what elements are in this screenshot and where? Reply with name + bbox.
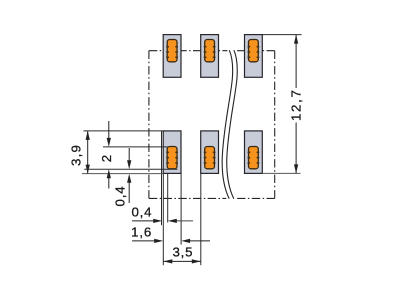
dimension 12,7 line + arrows	[295, 35, 297, 174]
dimension 0,4 horizontal line left + arrow	[132, 220, 155, 222]
top row centerline (dash-dot)	[149, 50, 275, 52]
extension line x=161.5 (left of pad col 1)	[161, 131, 163, 225]
extension line x=181.1 (pad col1 right, serves 1,6)	[180, 174, 182, 245]
dimension 2 extension top	[103, 146, 168, 148]
break line curve 2	[227, 50, 238, 199]
extension line x=163.3 (pad col1 left, serves 1,6 and 3,5)	[162, 174, 164, 265]
svg-text:1,6: 1,6	[131, 224, 152, 239]
extension line x=200.8 (pad col2 left, serves 3,5)	[200, 174, 202, 265]
dimension 2 extension bottom	[84, 168, 177, 170]
pad P3 top	[245, 35, 263, 78]
svg-text:0,4: 0,4	[112, 186, 127, 207]
dimension 1,6 right arrow + tail	[188, 240, 210, 242]
component outline bottom edge (phantom dash-dot)	[149, 197, 275, 199]
svg-text:3,5: 3,5	[172, 244, 193, 259]
pad P6 bottom	[245, 131, 263, 174]
pad P2 top	[201, 35, 219, 78]
dimension 2 upper outside arrow	[108, 121, 110, 140]
extension line x=167.7 (orange pad left, serves 0,4)	[167, 174, 169, 223]
pad P4 bottom	[163, 131, 181, 174]
dimension 12,7 extension top	[262, 34, 301, 36]
dimension 3,5 line + inside arrows	[163, 260, 201, 262]
break line curve 1	[222, 50, 233, 199]
dimension 3,9 line + arrows	[87, 131, 89, 174]
svg-text:12,7: 12,7	[288, 88, 303, 121]
dimension 0,4 vertical upper outside arrow	[128, 148, 130, 162]
component outline right edge (hidden dashed)	[274, 51, 276, 199]
component outline left edge (phantom dash-dot)	[148, 51, 150, 199]
dimension 1,6 line left + arrow	[132, 240, 156, 242]
dimension 12,7 extension bottom	[262, 172, 300, 174]
dimension 0,4 horizontal right arrow + tail	[175, 220, 194, 222]
dimension 3,9 extension bottom (grey)	[82, 173, 163, 175]
dimension 2 lower outside arrow	[108, 177, 110, 189]
svg-text:0,4: 0,4	[131, 204, 152, 219]
dimension 0,4 vertical lower outside arrow	[128, 182, 130, 204]
dimension 3,9 extension top	[84, 130, 164, 132]
pad P1 top (solder pad with contact)	[163, 35, 181, 78]
svg-text:3,9: 3,9	[68, 144, 83, 166]
pad P5 bottom	[201, 131, 219, 174]
break line white casing	[222, 49, 237, 199]
svg-text:2: 2	[99, 155, 114, 162]
